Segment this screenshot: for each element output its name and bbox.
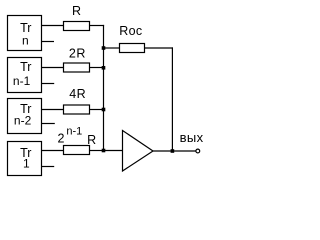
svg-text:n-2: n-2 bbox=[14, 114, 32, 128]
wire stub Tr n-2 lower pin bbox=[41, 123, 55, 125]
wire stub Tr n lower pin bbox=[41, 41, 54, 43]
node output terminal bbox=[196, 149, 200, 153]
block Tr n bbox=[8, 16, 42, 51]
wire 2R to summing node bbox=[90, 67, 104, 69]
node junction feedback/output bbox=[171, 149, 175, 153]
svg-text:n-1: n-1 bbox=[13, 74, 31, 88]
wire 2^(n-1)R to summing node bbox=[90, 150, 104, 152]
svg-text:вых: вых bbox=[180, 130, 204, 145]
svg-text:2: 2 bbox=[58, 132, 65, 146]
svg-text:Roc: Roc bbox=[119, 24, 142, 38]
wire Tr n-1 output to 2R bbox=[41, 67, 64, 69]
svg-text:4R: 4R bbox=[69, 87, 86, 101]
node junction Roc tap bbox=[102, 46, 106, 50]
wire Tr n-2 output to 4R bbox=[41, 109, 64, 111]
resistor 4R bbox=[64, 87, 90, 114]
wire op-amp output bbox=[153, 150, 196, 152]
svg-text:R: R bbox=[72, 4, 81, 18]
svg-text:2R: 2R bbox=[69, 47, 86, 61]
wire R to summing node bbox=[90, 25, 105, 27]
wire Roc to feedback corner bbox=[145, 47, 174, 49]
svg-text:n: n bbox=[22, 34, 29, 48]
node junction 2R bbox=[102, 66, 106, 70]
resistor 2R bbox=[64, 47, 90, 73]
svg-text:1: 1 bbox=[23, 157, 30, 171]
block Tr n-2 bbox=[8, 99, 42, 134]
wire summing bus vertical bbox=[103, 25, 105, 151]
svg-text:R: R bbox=[87, 133, 96, 147]
wire summing node to op-amp input bbox=[104, 150, 123, 152]
wire 4R to summing node bbox=[90, 109, 104, 111]
wire summing node to Roc bbox=[104, 47, 120, 49]
resistor 2^(n-1)R bbox=[58, 126, 97, 155]
resistor Roc bbox=[119, 24, 144, 53]
svg-text:n-1: n-1 bbox=[66, 126, 82, 138]
node junction 4R bbox=[102, 108, 106, 112]
wire stub Tr n-1 lower pin bbox=[41, 83, 54, 85]
svg-text:Tr: Tr bbox=[20, 60, 31, 74]
wire stub Tr 1 lower pin bbox=[41, 166, 54, 168]
op-amp U1 bbox=[123, 131, 154, 172]
resistor R bbox=[64, 4, 90, 31]
wire feedback vertical bbox=[171, 47, 173, 151]
block Tr 1 bbox=[8, 142, 42, 176]
wire Tr n output to R bbox=[41, 25, 64, 27]
node junction op-amp input bbox=[102, 149, 106, 153]
block Tr n-1 bbox=[8, 58, 42, 93]
wire Tr 1 output to 2^(n-1)R bbox=[41, 150, 64, 152]
